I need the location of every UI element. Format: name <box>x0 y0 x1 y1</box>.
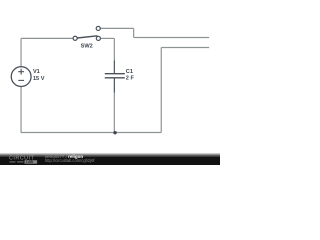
switch SW2 lever <box>77 36 97 38</box>
capacitor C1 top plate <box>105 73 125 75</box>
capacitor C1 bottom plate <box>105 77 125 79</box>
wire C1 bottom down to bottom rail <box>113 93 115 133</box>
wire step down at x=133 <box>133 28 135 37</box>
svg-text:V1: V1 <box>33 69 40 75</box>
wire left vertical from top corner to V1 top <box>20 38 22 66</box>
watermark footer bar <box>0 157 220 165</box>
voltage source V1 circle <box>11 67 31 87</box>
svg-text:LAB: LAB <box>26 160 34 164</box>
svg-text:2 F: 2 F <box>126 76 135 82</box>
svg-text:C1: C1 <box>126 69 133 75</box>
junction dot on bottom rail <box>113 131 116 134</box>
wire vertical down to C1 top <box>113 38 115 60</box>
CircuitLab logo LAB box <box>25 160 38 164</box>
CircuitLab logo lines <box>10 161 24 163</box>
wire right horizontal at y=47 <box>161 47 209 49</box>
wire right vertical branch <box>160 48 162 133</box>
capacitor C1 bottom lead <box>113 78 115 92</box>
wire left vertical from V1 bottom to bottom rail <box>20 87 22 133</box>
capacitor C1 top lead <box>113 61 115 74</box>
wire from SW2 top throw going right <box>100 27 133 29</box>
SW2 pole terminal circle <box>73 36 77 40</box>
svg-text:15 V: 15 V <box>33 76 45 82</box>
SW2 lower throw terminal circle <box>96 36 100 40</box>
svg-text:http://circuitlab.com/cgh2j9f: http://circuitlab.com/cgh2j9f <box>45 158 95 163</box>
wire top-left horizontal from source to SW2 <box>21 37 73 39</box>
V1 minus sign <box>18 79 24 81</box>
wire from SW2 lower throw to capacitor branch <box>100 37 114 39</box>
wire right horizontal at y=36.8 <box>134 37 210 39</box>
SW2 upper throw terminal circle <box>96 26 100 30</box>
wire bottom rail <box>21 132 161 134</box>
V1 plus sign <box>18 69 24 75</box>
svg-text:SW2: SW2 <box>81 43 93 49</box>
